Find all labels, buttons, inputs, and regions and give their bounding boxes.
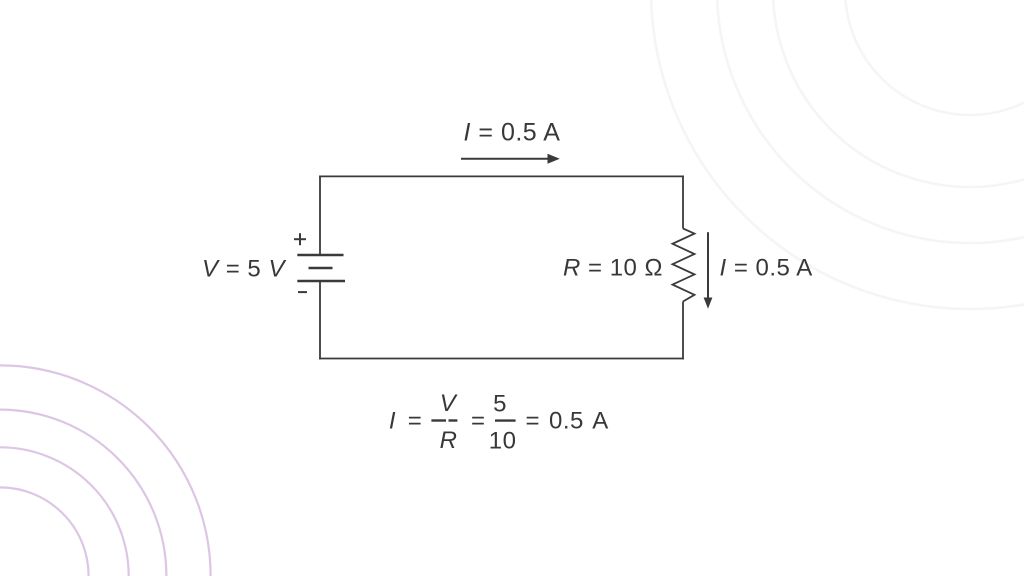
top current arrow xyxy=(461,158,549,160)
svg-text:I = 0.5 A: I = 0.5 A xyxy=(464,119,561,147)
wire left upper xyxy=(319,176,321,256)
battery plus mark xyxy=(294,233,306,245)
svg-text:0.5 A: 0.5 A xyxy=(549,408,609,435)
wire right upper xyxy=(682,176,684,229)
battery minus mark xyxy=(298,291,307,293)
svg-text:5: 5 xyxy=(493,391,507,418)
svg-text:I = 0.5 A: I = 0.5 A xyxy=(720,255,813,282)
formula fraction bar 1 (two dashes) xyxy=(431,419,446,421)
wire right lower xyxy=(682,302,684,360)
svg-text:V: V xyxy=(440,390,458,417)
svg-text:10: 10 xyxy=(489,428,517,455)
svg-text:R: R xyxy=(440,427,458,454)
resistor R1 zigzag xyxy=(673,229,695,302)
formula fraction bar 2 xyxy=(495,419,516,421)
decorative rings bottom-left xyxy=(0,365,211,576)
svg-text:=: = xyxy=(471,408,486,435)
svg-text:I: I xyxy=(389,408,396,435)
formula I = V/R = 5/10 = 0.5 A xyxy=(389,390,609,455)
svg-text:=: = xyxy=(408,408,423,435)
svg-text:=: = xyxy=(525,408,540,435)
decorative rings top-right xyxy=(651,0,1024,309)
wire left lower xyxy=(319,281,321,359)
right current arrow xyxy=(707,232,709,299)
svg-text:V = 5 V: V = 5 V xyxy=(202,256,286,283)
svg-text:R = 10 Ω: R = 10 Ω xyxy=(563,254,663,281)
wire top xyxy=(319,175,684,177)
wire bottom xyxy=(319,358,684,360)
battery V1 plates xyxy=(297,255,345,281)
